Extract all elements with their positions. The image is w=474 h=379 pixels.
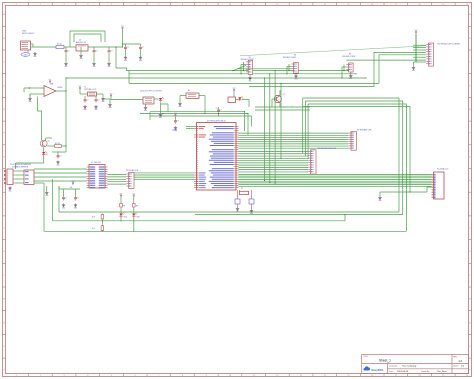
svg-text:C?: C? [127, 47, 129, 49]
svg-text:Sheet_1: Sheet_1 [379, 359, 391, 363]
svg-text:R2 10K: R2 10K [55, 143, 60, 145]
svg-text:VCC: VCC [132, 193, 135, 195]
svg-text:C?: C? [65, 197, 67, 199]
svg-text:REV:: REV: [453, 357, 457, 359]
svg-text:U5 74HC595: U5 74HC595 [91, 162, 101, 164]
svg-text:C9: C9 [216, 108, 218, 110]
svg-text:C?: C? [87, 99, 89, 101]
svg-text:U6: U6 [70, 187, 72, 189]
svg-text:GND: GND [79, 58, 82, 60]
svg-text:GND: GND [412, 70, 415, 72]
svg-text:2023-08-28: 2023-08-28 [397, 371, 409, 373]
svg-text:R11: R11 [92, 228, 95, 230]
svg-text:VCC: VCC [121, 26, 124, 28]
svg-text:M4 WIFI-ANT-CER-COB/WIFI: M4 WIFI-ANT-CER-COB/WIFI [438, 43, 461, 46]
svg-text:The_Best: The_Best [437, 370, 447, 373]
svg-text:VCC: VCC [174, 113, 177, 115]
svg-text:GND: GND [248, 81, 251, 83]
svg-text:GND: GND [144, 110, 147, 112]
svg-text:VCC: VCC [79, 86, 82, 88]
svg-text:M2: M2 [294, 55, 296, 57]
svg-text:Your Company: Your Company [402, 364, 417, 367]
svg-text:M6 WIFI-ANT-CER-COB: M6 WIFI-ANT-CER-COB [318, 147, 337, 150]
svg-text:GND: GND [64, 66, 67, 68]
svg-text:C?: C? [98, 99, 100, 101]
svg-text:LM358: LM358 [57, 87, 62, 89]
svg-text:U4 EL817-OPTO-COUPLER: U4 EL817-OPTO-COUPLER [140, 91, 162, 93]
svg-text:GND: GND [28, 101, 31, 103]
svg-text:VCC: VCC [415, 30, 418, 32]
svg-text:DISTANCE-SENSOR: DISTANCE-SENSOR [12, 165, 29, 168]
svg-text:AMS1117-3.3: AMS1117-3.3 [76, 41, 86, 44]
svg-text:MICRO-USB-5P: MICRO-USB-5P [22, 33, 35, 35]
svg-text:VCC: VCC [49, 79, 52, 81]
svg-text:C?: C? [68, 50, 70, 52]
svg-text:X1: X1 [241, 188, 243, 190]
svg-text:C?: C? [111, 50, 113, 52]
svg-text:C?: C? [177, 120, 179, 122]
svg-text:GND: GND [108, 107, 111, 109]
svg-text:GND: GND [45, 195, 48, 197]
svg-text:Drawn By:: Drawn By: [421, 370, 430, 373]
svg-text:GND: GND [8, 191, 11, 193]
svg-text:GND: GND [294, 79, 297, 81]
svg-text:C?: C? [220, 110, 222, 112]
svg-text:R9: R9 [136, 205, 138, 207]
svg-text:GND: GND [159, 117, 162, 119]
svg-text:GND: GND [92, 66, 95, 68]
svg-text:GND: GND [349, 78, 352, 80]
svg-text:Q2: Q2 [283, 94, 285, 96]
svg-text:Sheet:: Sheet: [453, 364, 459, 367]
svg-text:P3 RELAY-COB: P3 RELAY-COB [126, 169, 139, 172]
svg-text:C?: C? [96, 50, 98, 52]
svg-text:R10: R10 [92, 217, 95, 219]
svg-text:VCC: VCC [110, 93, 113, 95]
svg-text:TITLE:: TITLE: [363, 356, 369, 358]
svg-text:M5 WIFI-ANT-CER: M5 WIFI-ANT-CER [357, 129, 372, 132]
svg-text:LED1: LED1 [123, 217, 127, 219]
svg-text:GND: GND [139, 60, 142, 62]
svg-text:CRYSTAL-CLIP: CRYSTAL-CLIP [84, 88, 97, 91]
svg-text:EasyEDA: EasyEDA [372, 368, 384, 372]
svg-text:M1: M1 [249, 57, 251, 59]
svg-text:D1: D1 [46, 154, 48, 156]
svg-text:C?: C? [142, 47, 144, 49]
svg-text:M3: M3 [349, 53, 351, 55]
svg-text:LED2: LED2 [136, 217, 140, 219]
svg-text:GND: GND [62, 208, 65, 210]
svg-text:R9: R9 [123, 205, 125, 207]
svg-text:C?: C? [77, 197, 79, 199]
svg-text:P1 2004A-LCD: P1 2004A-LCD [437, 167, 449, 170]
svg-text:GND: GND [378, 200, 381, 202]
svg-text:GND: GND [101, 101, 104, 103]
svg-text:GND: GND [74, 208, 77, 210]
svg-text:VCC: VCC [120, 193, 123, 195]
svg-text:GND: GND [83, 109, 86, 111]
svg-text:GND: GND [33, 56, 36, 58]
svg-text:1.0: 1.0 [459, 359, 463, 363]
svg-text:GND: GND [124, 60, 127, 62]
svg-text:J: J [4, 227, 5, 229]
svg-text:VCC: VCC [233, 88, 236, 90]
svg-text:U1 ESP32-WROOM-32: U1 ESP32-WROOM-32 [207, 121, 226, 123]
svg-text:Q1: Q1 [48, 141, 50, 143]
svg-text:J: J [470, 227, 471, 229]
svg-text:C?: C? [60, 155, 62, 157]
svg-text:GND: GND [94, 109, 97, 111]
svg-text:VCC: VCC [72, 181, 75, 183]
svg-text:GND: GND [107, 66, 110, 68]
svg-text:K1: K1 [188, 90, 190, 92]
svg-text:Company:: Company: [389, 365, 398, 367]
svg-text:GND: GND [178, 106, 181, 108]
svg-text:GND: GND [56, 165, 59, 167]
svg-text:Date:: Date: [389, 370, 394, 373]
svg-text:C8 104: C8 104 [172, 130, 177, 132]
